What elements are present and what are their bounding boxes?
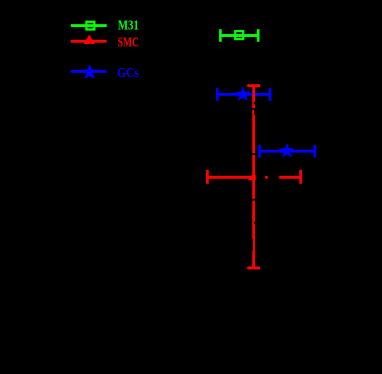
legend M31 sample line (71, 24, 107, 27)
black nick on red vertical bar (left, y~239-251) (252, 239, 253, 251)
black gap on red vertical bar (y~199.5) (252, 199, 255, 201)
SMC triangle marker (248, 172, 260, 180)
legend M31 open-square marker (86, 22, 94, 30)
M31 error bar left cap (219, 29, 222, 42)
svg-text:M31: M31 (118, 19, 139, 34)
GCs point 2 star marker (280, 144, 293, 156)
svg-text:GCs: GCs (117, 66, 139, 81)
legend SMC triangle marker (84, 35, 95, 45)
SMC data point: vertical error bar line (252, 86, 255, 268)
M31 data point: horizontal error bar line (219, 34, 259, 37)
GCs point 2 error bar right cap (313, 145, 316, 158)
black nick on red vertical bar (right, y~103) (254, 102, 255, 104)
GCs point 1 star marker (236, 87, 249, 100)
M31 open-square marker (235, 31, 243, 39)
black gap on red vertical bar (y~108.5) (252, 108, 255, 110)
legend SMC sample line (71, 40, 107, 43)
black nick on red vertical bar (right, y~222.5) (254, 222, 255, 224)
legend GCs star marker (83, 65, 97, 78)
SMC horizontal error bar line (206, 176, 302, 179)
black overlap notch on red vertical bar (252, 153, 257, 155)
SMC horizontal error bar left cap (206, 170, 209, 184)
SMC horizontal error bar right cap (299, 170, 302, 184)
GCs data point 2: horizontal error bar line (258, 150, 316, 153)
black nick on red vertical bar (right, y~110-115) (254, 110, 255, 115)
GCs data point 1: horizontal error bar line (216, 93, 271, 96)
black overlap mask on red horizontal bar (left gap) (256, 171, 265, 181)
GCs point 1 error bar right cap (269, 88, 272, 101)
GCs point 1 error bar left cap (216, 88, 219, 101)
M31 error bar right cap (257, 29, 260, 42)
SMC vertical error bar top cap (247, 84, 260, 87)
SMC vertical error bar bottom cap (247, 267, 260, 270)
legend GCs sample line (71, 70, 107, 73)
black overlap mask on red horizontal bar (right gap) (268, 171, 280, 181)
svg-text:SMC: SMC (118, 36, 139, 51)
GCs point 2 error bar left cap (258, 145, 261, 158)
